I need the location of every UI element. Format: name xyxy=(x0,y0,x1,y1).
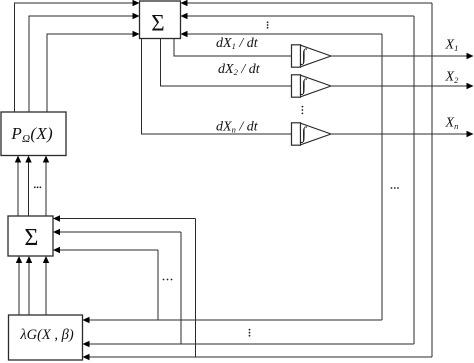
wire feedback X1 to top sigma right input 3 xyxy=(181,31,383,37)
wire left sigma output 2 up to P(X) xyxy=(25,156,31,217)
wire integrator A1 output X1 xyxy=(331,53,474,59)
wire feedback Xn to left sigma input 1 xyxy=(53,215,196,221)
wire feedback X2 bottom run to lambda-G input 2 xyxy=(83,341,415,347)
wire feedback Xn bottom run to lambda-G input 3 xyxy=(83,354,433,360)
wire feedback X1 vertical riser xyxy=(381,34,383,320)
ellipsis dots right side risers xyxy=(391,187,399,189)
wire feedback X2 to top sigma right input 2 xyxy=(181,13,415,19)
wire feedback Xn tap riser to left sigma xyxy=(195,219,197,358)
wire top sigma output n to integrator An xyxy=(142,39,292,135)
svg-text:dX1 / dt: dX1 / dt xyxy=(216,36,259,51)
integrator A1 xyxy=(292,45,332,67)
wire lambda-G output 1 up to left sigma xyxy=(16,256,22,315)
block U4 lambda G(X, beta) xyxy=(9,315,83,360)
integrator An xyxy=(292,123,332,145)
wire integrator A2 output X2 xyxy=(331,83,474,89)
wire feedback Xn to top sigma right input 1 xyxy=(181,0,433,6)
wire lambda-G output 2 up to left sigma xyxy=(26,256,32,315)
wire feedback X1 bottom run to lambda-G input 1 xyxy=(83,317,383,323)
ellipsis dots between left sigma tap risers xyxy=(163,279,173,281)
wire feedback X2 tap riser to left sigma xyxy=(180,232,182,344)
wire feedback Xn vertical riser xyxy=(431,3,433,357)
block U2 projection P_Omega(X) xyxy=(1,112,66,156)
wire P(X) output 1 to top sigma input 1 xyxy=(15,0,140,112)
svg-text:Σ: Σ xyxy=(24,225,38,251)
wire feedback X2 to left sigma input 2 xyxy=(53,229,181,235)
wire integrator An output Xn xyxy=(331,131,474,137)
wire feedback X2 vertical riser xyxy=(413,16,415,344)
svg-text:dXn / dt: dXn / dt xyxy=(216,120,259,135)
wire left sigma output 1 up to P(X) xyxy=(15,156,21,217)
svg-text:dX2 / dt: dX2 / dt xyxy=(218,62,261,77)
svg-text:PΩ(X): PΩ(X) xyxy=(10,124,53,145)
ellipsis dots between top feedback lines xyxy=(267,21,269,28)
ellipsis dots bottom feedback lines xyxy=(249,329,251,337)
wire feedback X1 tap riser to left sigma xyxy=(157,250,159,320)
summing block U3 (left sigma) xyxy=(8,216,53,256)
wire top sigma output 1 to integrator A1 xyxy=(174,39,292,57)
wire left sigma output n up to P(X) xyxy=(43,156,49,217)
svg-text:Σ: Σ xyxy=(151,11,164,36)
summing block U1 (top sigma) xyxy=(140,1,181,39)
wire top sigma output 2 to integrator A2 xyxy=(161,39,292,87)
ellipsis dots between integrators xyxy=(302,106,304,115)
wire feedback X1 to left sigma input 3 xyxy=(53,247,158,253)
wire lambda-G output n up to left sigma xyxy=(43,256,49,315)
wire P(X) output 2 to top sigma input 2 xyxy=(29,13,140,112)
ellipsis dots between P(X) and left sigma xyxy=(34,186,41,188)
integrator A2 xyxy=(292,75,332,97)
wire P(X) output 3 to top sigma input 3 xyxy=(47,31,140,112)
svg-text:λG(X , β): λG(X , β) xyxy=(19,327,74,343)
